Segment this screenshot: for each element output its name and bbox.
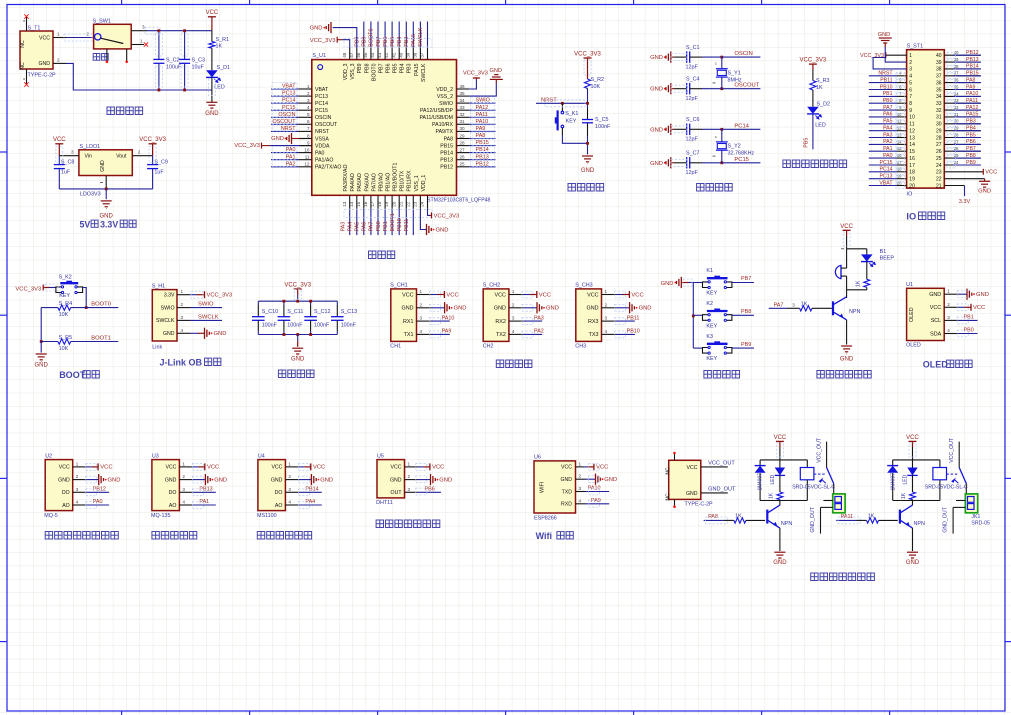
svg-text:100nF: 100nF: [595, 124, 611, 130]
svg-text:PB7: PB7: [378, 63, 384, 73]
svg-text:GND: GND: [840, 357, 854, 363]
filter bottom rail: [258, 334, 337, 336]
relay top rail: [893, 459, 940, 461]
svg-text:AO: AO: [275, 503, 283, 509]
wire+net PA3 bottom: [349, 209, 351, 235]
wire+net PA8: [469, 138, 495, 140]
svg-text:VCC: VCC: [207, 465, 219, 471]
wire+net BOOT1 bottom: [398, 209, 400, 235]
svg-text:PB0: PB0: [376, 221, 382, 231]
svg-text:GND: GND: [165, 477, 177, 483]
svg-text:TYPE-C-2P: TYPE-C-2P: [685, 501, 714, 507]
power port VCC alarm: [843, 229, 851, 231]
svg-text:J-Link OB: J-Link OB: [160, 358, 203, 368]
svg-text:48: 48: [342, 52, 347, 58]
svg-text:U2: U2: [45, 454, 52, 460]
svg-text:2: 2: [947, 302, 950, 307]
svg-text:PC15: PC15: [880, 160, 893, 166]
svg-text:PB4: PB4: [397, 37, 403, 47]
wire+net PB6 st1: [944, 143, 981, 145]
pin U1-18 PB0/AO: [384, 195, 386, 209]
header S_CH3: [576, 289, 602, 342]
section label gas detect: [45, 532, 118, 540]
wire+net PB7 st1: [944, 150, 981, 152]
pin S_CH1-4 PA9: [417, 333, 431, 335]
wire+net PB14: [469, 152, 495, 154]
svg-text:2: 2: [909, 60, 912, 66]
pin U6 RXD net PA9: [576, 503, 586, 505]
svg-text:3: 3: [408, 487, 411, 492]
svg-text:PB9: PB9: [966, 160, 976, 166]
svg-text:1: 1: [57, 32, 60, 37]
svg-text:S_D2: S_D2: [817, 101, 831, 107]
svg-text:43: 43: [377, 52, 382, 58]
pin U1-40 PB4: [405, 48, 407, 60]
svg-text:GND: GND: [661, 281, 674, 287]
svg-text:1: 1: [140, 38, 143, 43]
svg-text:PB12: PB12: [93, 487, 106, 493]
svg-text:9: 9: [909, 108, 912, 114]
wire+net PB10 bottom: [405, 209, 407, 235]
crystal S_Y2: [721, 129, 723, 142]
svg-text:PB7: PB7: [966, 146, 976, 152]
relay coil: [806, 460, 808, 468]
wire+net PB12: [469, 166, 495, 168]
pin U1-13 PA3/RX/AO: [349, 195, 351, 209]
svg-text:c: c: [715, 134, 717, 139]
svg-text:LED: LED: [903, 474, 909, 484]
svg-text:VCC: VCC: [100, 465, 112, 471]
pin U1-47 VSS_3: [356, 48, 358, 60]
relay bottom rail: [893, 500, 940, 502]
pin U3 net PA1: [179, 504, 192, 506]
svg-text:B1: B1: [880, 249, 887, 255]
capacitor S_C13 100nF: [336, 301, 338, 305]
svg-text:PB5: PB5: [804, 138, 810, 148]
svg-text:VBAT: VBAT: [315, 87, 329, 93]
svg-text:4: 4: [605, 329, 608, 334]
pin U5 GND: [405, 479, 418, 481]
svg-text:PB13: PB13: [440, 158, 453, 164]
svg-text:17: 17: [370, 201, 375, 207]
pin S_CH1-1 VCC: [417, 294, 431, 296]
svg-text:LED: LED: [770, 474, 776, 484]
svg-text:PB0/AO: PB0/AO: [378, 173, 384, 192]
svg-text:PC13: PC13: [315, 94, 328, 100]
svg-text:39: 39: [936, 60, 942, 66]
svg-text:47: 47: [349, 52, 354, 58]
svg-text:PC14: PC14: [880, 167, 893, 173]
svg-text:RXD: RXD: [561, 502, 572, 508]
svg-text:BOOT0: BOOT0: [371, 63, 377, 81]
pin U1-2 PC13: [299, 95, 312, 97]
wire+net SWIO: [469, 102, 495, 104]
wire+net PA5 bottom: [363, 209, 365, 235]
svg-text:GND: GND: [878, 32, 890, 38]
svg-text:TXD: TXD: [562, 489, 573, 495]
svg-text:100uF: 100uF: [166, 65, 182, 71]
key K3: [693, 347, 702, 349]
svg-text:PB9: PB9: [355, 37, 361, 47]
svg-text:OUT: OUT: [391, 490, 403, 496]
wire net PC14: [722, 128, 761, 130]
base net PA8 + 1K: [704, 519, 724, 521]
svg-text:14: 14: [349, 201, 354, 207]
svg-text:PB12: PB12: [440, 165, 453, 171]
svg-text:VCC: VCC: [631, 292, 643, 298]
wire+net SWCLK top: [427, 22, 429, 48]
svg-text:VCC: VCC: [596, 465, 608, 471]
svg-text:1K: 1K: [801, 302, 808, 308]
svg-text:4: 4: [288, 500, 291, 505]
svg-text:14: 14: [897, 139, 902, 144]
wire+net PB9 st1: [944, 164, 981, 166]
pin U1-10 PA0: [299, 152, 312, 154]
svg-text:PA10: PA10: [588, 486, 601, 492]
svg-text:PA12: PA12: [966, 105, 978, 111]
pin U1-29 PA8: [457, 138, 470, 140]
svg-text:NPN: NPN: [914, 521, 925, 527]
capacitor C8 1uF: [58, 156, 60, 165]
svg-text:20: 20: [391, 201, 396, 207]
wire net OSCIN: [722, 56, 761, 58]
wire+net PA9: [469, 130, 495, 132]
section label crystal circuit: [697, 184, 733, 192]
svg-text:VCC_OUT: VCC_OUT: [949, 437, 955, 463]
svg-text:GND_OUT: GND_OUT: [810, 506, 816, 532]
wire net OSCOUT: [722, 88, 761, 90]
svg-text:S_R3: S_R3: [816, 78, 830, 84]
svg-text:PB2/BOOT1: PB2/BOOT1: [393, 163, 399, 192]
svg-text:1K: 1K: [868, 513, 875, 519]
svg-text:PB5: PB5: [966, 132, 976, 138]
svg-text:DHT11: DHT11: [376, 500, 393, 506]
svg-text:Vin: Vin: [85, 154, 93, 160]
svg-text:38: 38: [936, 67, 942, 73]
svg-text:1: 1: [181, 289, 184, 294]
pin U3 VCC: [179, 466, 192, 468]
svg-text:OSCOUT: OSCOUT: [315, 122, 338, 128]
wire GND rail of power circuit: [66, 63, 212, 90]
section label main chip: [369, 251, 395, 259]
svg-text:24: 24: [936, 163, 942, 169]
svg-text:100nF: 100nF: [314, 323, 330, 329]
svg-text:27: 27: [954, 139, 959, 144]
svg-text:ESP8266: ESP8266: [534, 516, 557, 522]
pin U1-11 PA1/AO: [299, 159, 312, 161]
wire+net NRST: [271, 130, 299, 132]
svg-text:2: 2: [181, 302, 184, 307]
wire+net PA1: [271, 159, 299, 161]
wire+net PB1 bottom: [391, 209, 393, 235]
pin ST1-21 3.3V: [944, 185, 964, 187]
svg-text:1N4007: 1N4007: [890, 473, 896, 491]
svg-text:29: 29: [954, 126, 959, 131]
wire+net PB4 st1: [944, 130, 981, 132]
svg-text:RX2: RX2: [495, 319, 506, 325]
wire+net PB15: [469, 145, 495, 147]
svg-text:S_CH3: S_CH3: [575, 282, 592, 288]
pin S_CH2-2 GND: [509, 307, 523, 309]
pin SW1-1 no-connect: [131, 44, 144, 46]
svg-text:28: 28: [460, 140, 466, 145]
svg-text:SDA: SDA: [930, 331, 941, 337]
diode 1N4007: [892, 460, 894, 466]
svg-text:18: 18: [377, 201, 382, 207]
svg-text:S_C2: S_C2: [166, 58, 180, 64]
pin U1-5 OSCIN: [299, 116, 312, 118]
svg-text:VCC_3V3: VCC_3V3: [310, 38, 336, 44]
svg-text:OSCIN: OSCIN: [315, 115, 332, 121]
svg-text:PA1/AO: PA1/AO: [315, 158, 333, 164]
wire+net PA11 st1: [944, 102, 981, 104]
pin U5 VCC: [405, 466, 418, 468]
svg-text:U6: U6: [534, 455, 541, 461]
svg-text:4: 4: [579, 498, 582, 503]
svg-text:PA2: PA2: [534, 329, 544, 335]
svg-text:BOOT1: BOOT1: [390, 213, 396, 231]
svg-text:PC14: PC14: [315, 101, 328, 107]
svg-text:30: 30: [460, 126, 466, 131]
svg-text:3: 3: [420, 316, 423, 321]
wire VDD_2 to VCC_3V3: [469, 79, 476, 89]
wire D2 to PB5: [812, 114, 814, 149]
svg-text:PB7: PB7: [376, 37, 382, 47]
svg-text:K3: K3: [706, 334, 713, 340]
wire+net PB0 bottom: [384, 209, 386, 235]
svg-text:VSS_1: VSS_1: [414, 175, 420, 191]
filter top rail: [258, 300, 337, 302]
svg-text:25: 25: [936, 156, 942, 162]
svg-text:S_R5: S_R5: [59, 335, 73, 341]
wire+net PA2: [271, 166, 299, 168]
svg-text:PA0: PA0: [93, 499, 103, 505]
wire+net PB13: [469, 159, 495, 161]
svg-text:3.3V: 3.3V: [959, 199, 971, 205]
svg-text:GND: GND: [978, 189, 991, 195]
svg-text:S_R1: S_R1: [216, 37, 230, 43]
resistor R3 1K: [810, 81, 816, 91]
wire+net PB9 top: [363, 22, 365, 48]
gnd VSSA pin8: [300, 138, 312, 140]
pin U1-19 PB1/AO: [391, 195, 393, 209]
svg-text:NC: NC: [20, 62, 26, 70]
section label serial circuit: [496, 360, 532, 368]
svg-text:GND: GND: [35, 362, 49, 368]
svg-text:PB5: PB5: [393, 63, 399, 73]
pin U1-46 PB9: [363, 48, 365, 60]
svg-text:3: 3: [76, 487, 79, 492]
pin U1-17 PA7/AO: [377, 195, 379, 209]
svg-text:1K: 1K: [735, 513, 742, 519]
header S_CH2: [483, 289, 509, 342]
svg-text:3: 3: [579, 486, 582, 491]
svg-text:10K: 10K: [59, 346, 69, 352]
svg-text:S_C10: S_C10: [262, 309, 278, 315]
wire K2 to BOOT0: [83, 288, 87, 308]
svg-text:PB11/RX: PB11/RX: [407, 170, 413, 191]
svg-text:4: 4: [420, 329, 423, 334]
svg-text:PA4: PA4: [348, 222, 354, 232]
svg-text:S_C3: S_C3: [192, 58, 206, 64]
wire+net PB14 st1: [944, 68, 981, 70]
svg-text:RX3: RX3: [588, 319, 599, 325]
svg-text:PB14: PB14: [966, 64, 979, 70]
capacitor C9 1uF: [147, 164, 158, 166]
svg-text:PC15: PC15: [315, 108, 328, 114]
wire+net PB7: [732, 282, 754, 284]
pin LDO1-3: [59, 155, 79, 157]
wire+net PB4 top: [405, 22, 407, 48]
pin U1-42 PB6: [391, 48, 393, 60]
pin S_CH3-3 PB11: [602, 320, 616, 322]
svg-text:PA3: PA3: [340, 222, 346, 232]
svg-text:1K: 1K: [855, 280, 861, 287]
svg-text:AO: AO: [169, 503, 177, 509]
svg-text:30: 30: [936, 122, 942, 128]
relay switch contact: [826, 442, 828, 468]
svg-text:3: 3: [71, 150, 74, 155]
svg-text:NPN: NPN: [849, 309, 860, 315]
svg-text:S_C12: S_C12: [314, 309, 330, 315]
svg-text:PB8: PB8: [966, 153, 976, 159]
svg-text:VCC: VCC: [774, 435, 787, 441]
svg-text:U4: U4: [258, 454, 265, 460]
pin OLED-1 GND: [944, 293, 958, 295]
svg-text:SWCLK: SWCLK: [421, 63, 427, 82]
svg-text:2: 2: [182, 474, 185, 479]
svg-text:DO: DO: [275, 490, 283, 496]
svg-text:NPN: NPN: [781, 521, 792, 527]
svg-text:4: 4: [307, 105, 310, 110]
pin OLED-2 VCC: [944, 306, 958, 308]
pin U1-34 SWIO: [457, 102, 470, 104]
svg-text:5: 5: [307, 112, 310, 117]
svg-text:SRD-05VDC-SL-C: SRD-05VDC-SL-C: [792, 485, 835, 491]
svg-text:100nF: 100nF: [262, 323, 278, 329]
ground GND boot: [40, 342, 42, 353]
svg-text:2: 2: [408, 474, 411, 479]
pin T2 bottom: [674, 499, 676, 506]
section label filter circuit: [278, 370, 314, 378]
svg-text:11: 11: [909, 122, 914, 128]
svg-text:3: 3: [909, 67, 912, 73]
alarm top node: [847, 248, 867, 250]
svg-text:19: 19: [384, 201, 389, 207]
svg-text:21: 21: [398, 201, 403, 207]
wire+net PB13 st1: [944, 61, 981, 63]
svg-text:VCC: VCC: [539, 292, 551, 298]
svg-text:GND: GND: [310, 26, 323, 32]
svg-text:S_C1: S_C1: [686, 45, 700, 51]
svg-text:PA6/AO: PA6/AO: [364, 173, 370, 191]
pin S_CH1-3 PA10: [417, 320, 431, 322]
svg-text:SWIO: SWIO: [161, 305, 175, 311]
svg-text:PB10: PB10: [880, 84, 893, 90]
svg-text:23: 23: [936, 170, 942, 176]
svg-text:34: 34: [936, 94, 942, 100]
svg-text:VCC_3V3: VCC_3V3: [800, 58, 827, 64]
wire+net PC14: [271, 102, 299, 104]
svg-text:1: 1: [909, 53, 912, 59]
capacitor C3 10uF: [184, 31, 186, 60]
pin U5 net PB6: [405, 491, 418, 493]
svg-text:39: 39: [405, 52, 410, 58]
svg-text:OSCIN: OSCIN: [734, 51, 752, 57]
resistor R2 10K: [587, 58, 589, 79]
pin OLED-4 PB0: [944, 333, 958, 335]
pin U1-15 PA5/AO: [363, 195, 365, 209]
svg-text:TYPE-C-2P: TYPE-C-2P: [28, 73, 57, 79]
svg-text:BOOT0: BOOT0: [91, 302, 111, 308]
svg-text:GND: GND: [100, 160, 106, 172]
svg-text:VCC_3V3: VCC_3V3: [434, 213, 460, 219]
svg-text:GND: GND: [436, 227, 449, 233]
svg-text:4: 4: [182, 500, 185, 505]
svg-text:8MHz: 8MHz: [728, 78, 742, 84]
svg-text:WIFI: WIFI: [540, 482, 546, 493]
base net PA11 + 1K: [836, 519, 856, 521]
svg-text:1: 1: [605, 289, 608, 294]
svg-text:PA3: PA3: [534, 315, 544, 321]
svg-text:NRST: NRST: [878, 71, 893, 77]
pin U1-43 PB7: [384, 48, 386, 60]
svg-text:2: 2: [579, 474, 582, 479]
svg-text:40: 40: [936, 53, 942, 59]
wire+net VBAT: [271, 88, 299, 90]
pin U1-32 PA11/USB/DM: [457, 116, 470, 118]
power port VCC relay PA11: [909, 440, 917, 442]
relay bottom rail: [760, 500, 807, 502]
svg-text:VCC_3V3: VCC_3V3: [15, 286, 41, 292]
svg-text:1uF: 1uF: [61, 170, 71, 176]
pin S_CH3-1 VCC: [602, 294, 616, 296]
svg-text:PC15: PC15: [734, 157, 749, 163]
wire+net PA11: [469, 116, 495, 118]
pin T2 GND net GND_OUT: [701, 492, 728, 494]
svg-text:VCC_3V3: VCC_3V3: [463, 71, 488, 77]
regulator LDO1 LDO3V3: [79, 150, 132, 176]
svg-text:29: 29: [936, 129, 942, 135]
resistor 1K relay led: [777, 492, 783, 500]
pin U1-8 VSSA: [299, 138, 312, 140]
svg-text:16: 16: [363, 201, 368, 207]
svg-text:19: 19: [909, 177, 915, 183]
svg-text:1: 1: [420, 289, 423, 294]
svg-text:6: 6: [909, 87, 912, 93]
svg-text:SWCLK: SWCLK: [198, 314, 219, 320]
svg-text:PA10: PA10: [966, 91, 978, 97]
capacitor S_C10 100nF: [257, 301, 259, 305]
pin T1-1 VCC: [53, 37, 66, 39]
svg-text:31: 31: [460, 119, 466, 124]
wire VSS_3 to GND: [333, 28, 357, 48]
svg-text:S_C4: S_C4: [686, 77, 700, 83]
svg-text:CH1: CH1: [390, 343, 401, 349]
svg-text:GND: GND: [639, 306, 652, 312]
svg-text:18: 18: [909, 170, 915, 176]
svg-text:26: 26: [936, 149, 942, 155]
svg-text:VDD_3: VDD_3: [343, 63, 349, 80]
svg-text:28: 28: [936, 135, 942, 141]
svg-text:6: 6: [307, 119, 310, 124]
svg-text:MQ-5: MQ-5: [44, 513, 57, 519]
svg-text:40: 40: [398, 52, 403, 58]
emitter to gnd: [846, 320, 848, 345]
svg-text:23: 23: [413, 201, 418, 207]
header S_CH1: [391, 289, 417, 342]
svg-text:7: 7: [307, 126, 310, 131]
